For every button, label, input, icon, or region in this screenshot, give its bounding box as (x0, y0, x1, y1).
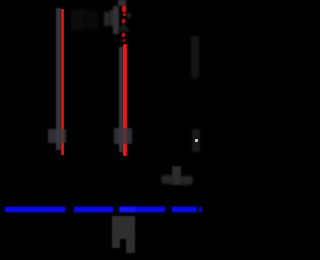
node B: top-right gray label patch (staircase) (104, 12, 110, 26)
node E: white dot (195, 139, 198, 142)
node G: ultra-faint block right of left line top (71, 9, 85, 30)
node C: right line label blob (114, 128, 132, 144)
node F: overbrace center block (172, 166, 181, 185)
node F: overbrace left wing (161, 175, 173, 185)
wire: blue dashed baseline dash 3 bright overlay (120, 207, 135, 213)
node E: faint glyph right side middle (192, 129, 200, 152)
ground: gray base block left leg (112, 236, 120, 248)
node D: faint vertical band right side upper (191, 36, 199, 78)
ground: gray base block main body (112, 216, 135, 239)
wire: left line gray companion bar (56, 8, 61, 150)
wire: right line gray companion bar (119, 47, 123, 152)
wire: blue dashed baseline dash 1 (5, 207, 65, 212)
wire: left red vertical line (61, 9, 64, 155)
wire: blue dashed baseline dash 5 (tip) (199, 207, 202, 212)
wire: blue dashed baseline dash 3 (119, 207, 165, 212)
transistor arrowhead: dark upward triangle on right dashed line (117, 22, 130, 32)
node A: left line label blob (48, 129, 66, 143)
wire: blue dashed baseline dash 2 (74, 207, 113, 212)
node F: overbrace right wing (180, 176, 193, 186)
ground: gray base block right leg (126, 236, 135, 253)
wire: right red vertical line (123, 44, 127, 156)
wire: red dashed segment above right line (122, 6, 126, 12)
wire: blue dashed baseline dash 4 (172, 207, 197, 212)
